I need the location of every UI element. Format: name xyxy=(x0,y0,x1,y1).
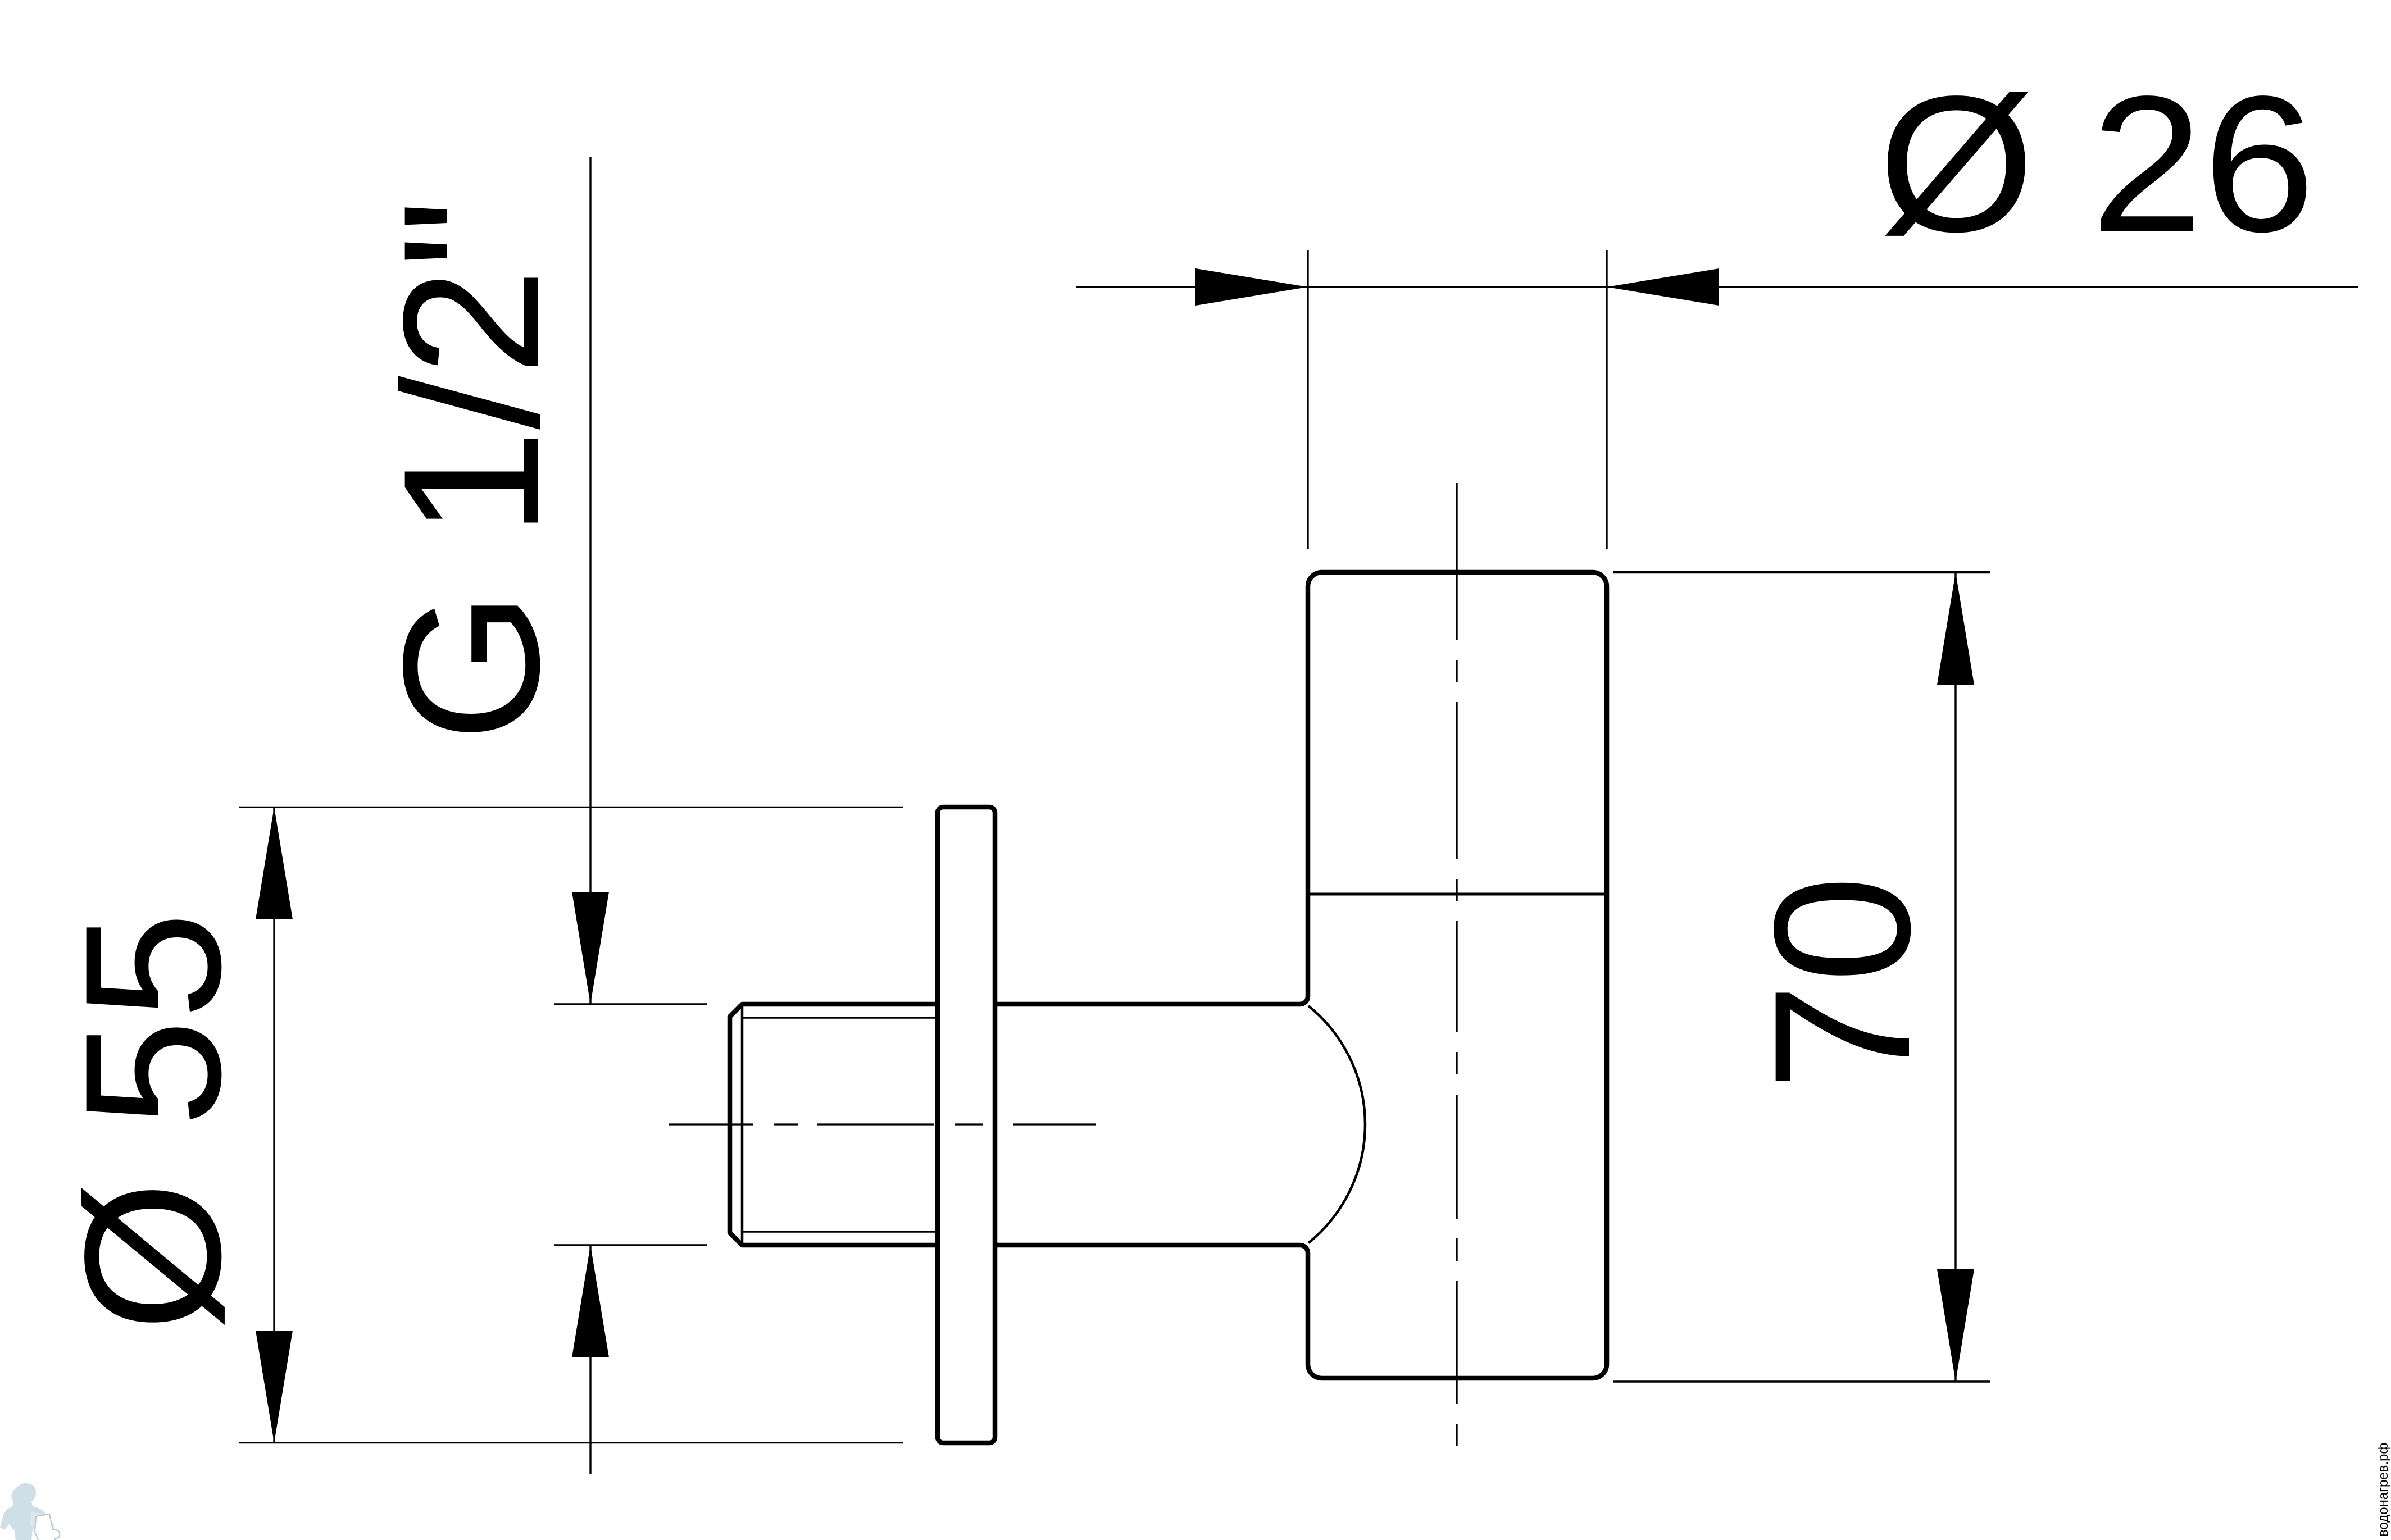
dim G1/2: extension line bottom xyxy=(554,1244,707,1246)
wall flange plate xyxy=(938,807,995,1443)
thread minor diameter line (top) xyxy=(742,1017,937,1018)
dim 55: top arrow xyxy=(256,807,293,919)
dim 55: bottom arrow xyxy=(256,1331,293,1443)
dim G1/2: dimension line upper xyxy=(589,157,591,1004)
vertical centerline (body axis) xyxy=(1456,483,1457,1446)
body cap separation line xyxy=(1309,893,1606,896)
dim 55: extension line bottom xyxy=(239,1442,903,1444)
dim 70: bottom arrow xyxy=(1937,1269,1974,1382)
dim 55: extension line top xyxy=(239,807,903,808)
valve body and threaded pipe outline xyxy=(730,572,1607,1378)
dim G1/2: extension line top xyxy=(554,1003,707,1005)
watermark: toilet bowl bottom-left xyxy=(35,1514,60,1540)
thread chamfer line xyxy=(741,1004,744,1245)
svg-text:водонагрев.рф: водонагрев.рф xyxy=(2376,1443,2391,1537)
svg-text:70: 70 xyxy=(1734,875,1951,1091)
dim 26: extension line right xyxy=(1606,250,1607,549)
thread minor diameter line (bottom) xyxy=(742,1231,937,1232)
internal seat arc xyxy=(1308,1006,1365,1243)
horizontal centerline (pipe axis) xyxy=(669,1123,1096,1125)
dim 55: dimension line xyxy=(273,807,275,1443)
dim G1/2: upper arrow xyxy=(572,892,609,1004)
dim 70: extension line bottom xyxy=(1613,1380,1990,1382)
svg-text:Ø 26: Ø 26 xyxy=(1878,56,2315,272)
dim 70: extension line top xyxy=(1613,571,1990,574)
dim 26: extension line left xyxy=(1307,250,1308,549)
svg-text:Ø 55: Ø 55 xyxy=(45,912,261,1332)
dim 26: dimension line xyxy=(1076,286,2358,288)
watermark: plumber logo bottom-left xyxy=(0,1483,55,1540)
dim 26: right arrow xyxy=(1607,268,1719,306)
svg-text:G 1/2": G 1/2" xyxy=(363,199,580,742)
dim G1/2: dimension line lower xyxy=(589,1245,591,1474)
dim 70: top arrow xyxy=(1937,572,1974,685)
dim 70: dimension line xyxy=(1954,572,1956,1382)
dim 26: left arrow xyxy=(1195,268,1308,306)
dim G1/2: lower arrow xyxy=(572,1245,609,1357)
